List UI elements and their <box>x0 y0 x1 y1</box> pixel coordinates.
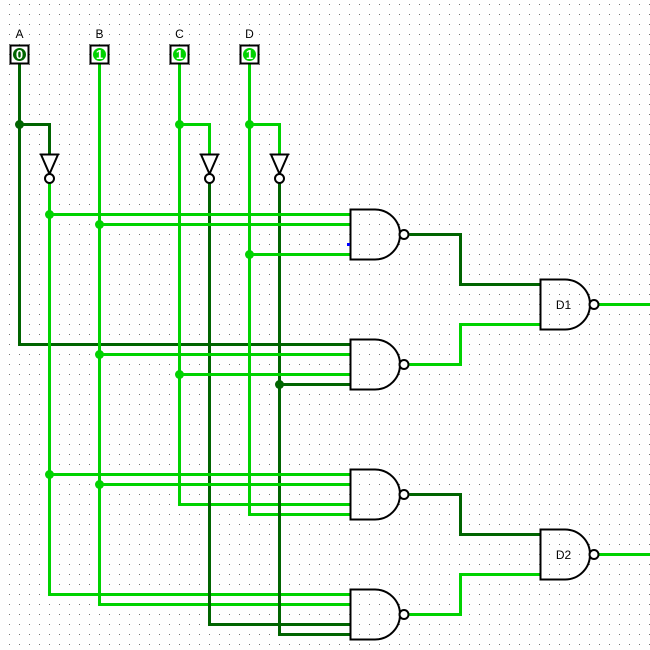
svg-text:C: C <box>175 27 184 41</box>
svg-text:1: 1 <box>246 47 253 62</box>
svg-text:0: 0 <box>16 47 23 62</box>
svg-text:1: 1 <box>176 47 183 62</box>
svg-text:D: D <box>245 27 254 41</box>
svg-text:D1: D1 <box>556 298 572 312</box>
svg-text:1: 1 <box>96 47 103 62</box>
svg-text:B: B <box>95 27 103 41</box>
svg-text:A: A <box>15 27 23 41</box>
svg-text:D2: D2 <box>556 548 572 562</box>
